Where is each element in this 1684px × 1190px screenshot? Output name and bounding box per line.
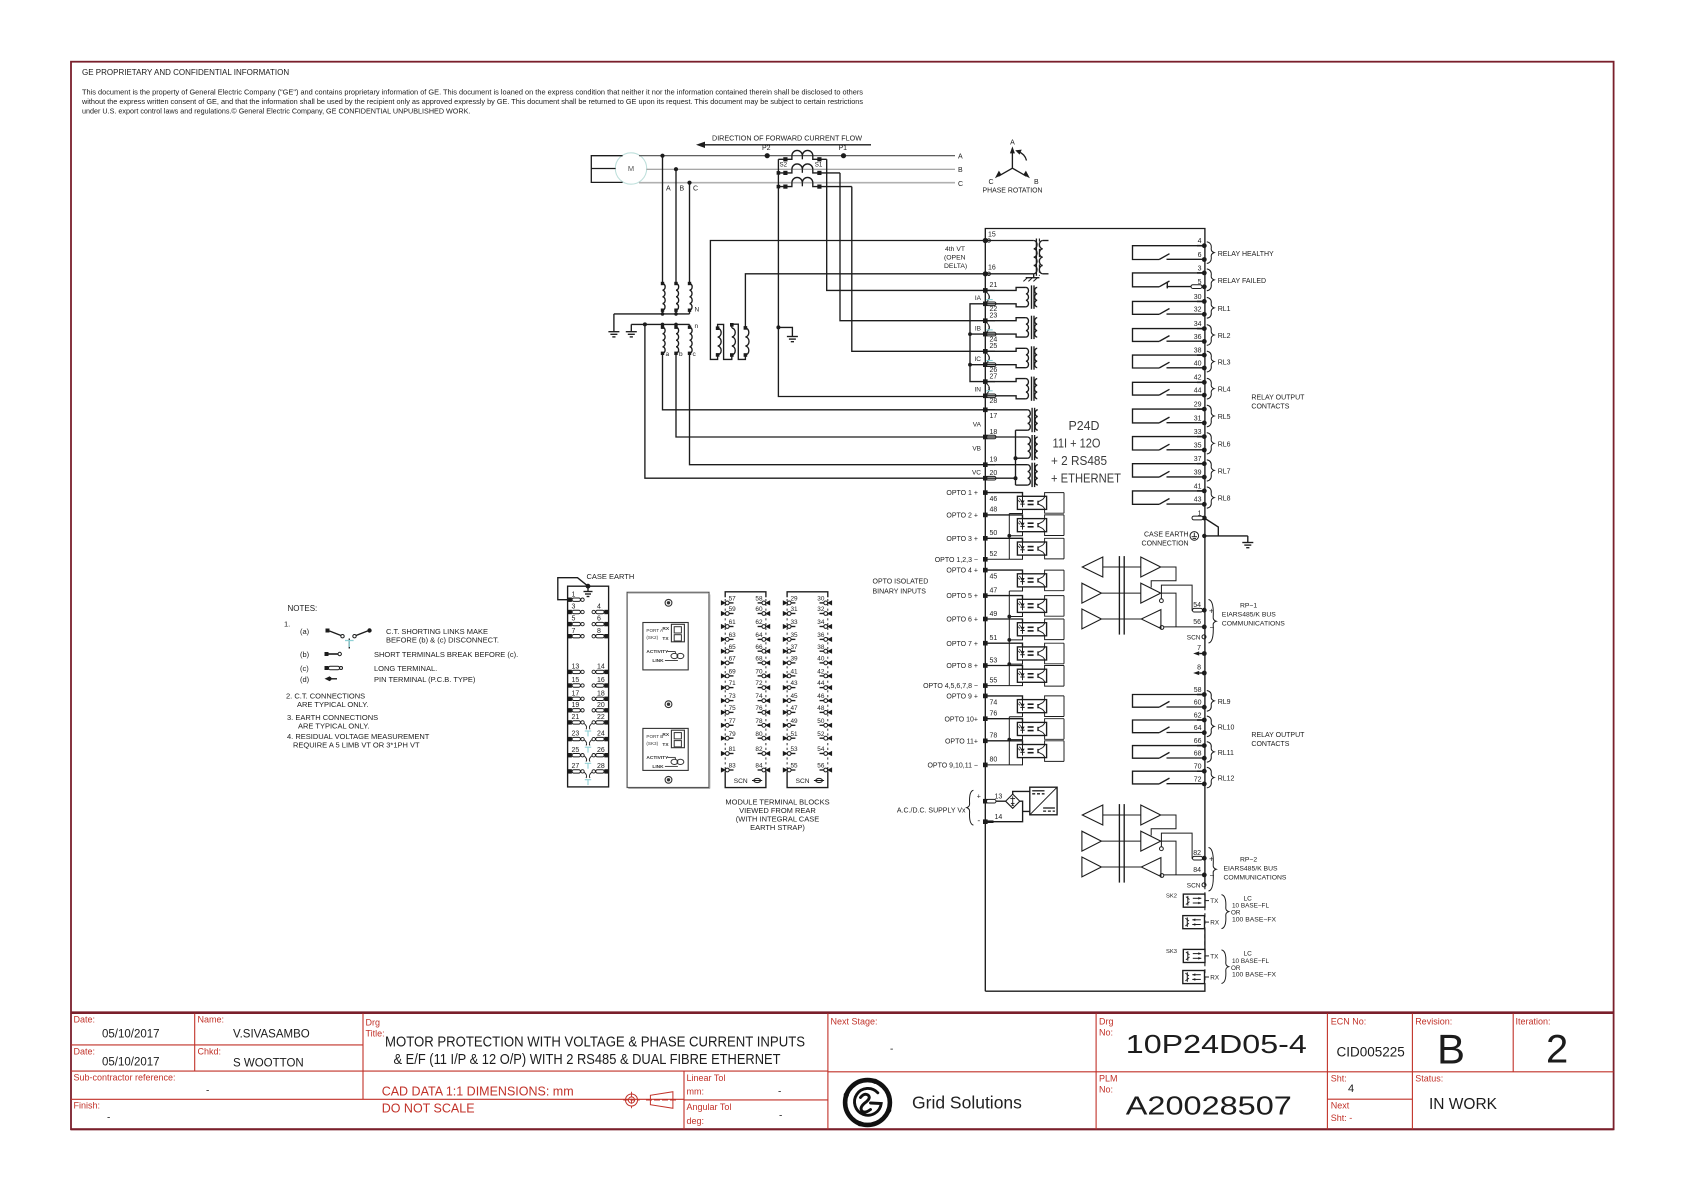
svg-text:58: 58: [1194, 687, 1202, 694]
svg-text:43: 43: [1194, 497, 1202, 504]
svg-text:7: 7: [572, 628, 576, 635]
svg-text:(d): (d): [300, 675, 310, 684]
ground case earth: [1247, 536, 1249, 543]
VT secondary star wire: [631, 324, 689, 327]
relay output contact RL3: [1133, 355, 1205, 368]
opto isolator 5: [985, 596, 1022, 600]
case earth terminal 3: [568, 610, 572, 614]
svg-text:IB: IB: [975, 325, 981, 332]
svg-text:68: 68: [1194, 751, 1202, 758]
module terminal block 57-84 terminal 58: [765, 600, 770, 605]
opto input terminal 78: [983, 739, 988, 744]
opto isolator 10: [985, 719, 1022, 723]
svg-text:23: 23: [572, 731, 580, 738]
svg-text:64: 64: [1194, 725, 1202, 732]
title block outline: [71, 1011, 1614, 1014]
svg-text:RL2: RL2: [1218, 333, 1231, 340]
RP-2 row1 wire: [1151, 815, 1176, 836]
terminal SCN RP-2: [1202, 883, 1206, 887]
svg-text:ACTIVITY: ACTIVITY: [646, 649, 669, 655]
svg-text:48: 48: [990, 507, 998, 514]
svg-text:15: 15: [988, 231, 996, 238]
svg-text:13: 13: [995, 794, 1003, 801]
note 1d icon: [325, 676, 331, 681]
module terminal block 57-84 terminal 72: [765, 685, 770, 690]
svg-text:4: 4: [1198, 238, 1202, 245]
svg-text:IC: IC: [975, 356, 982, 363]
case earth terminal 13: [568, 670, 572, 674]
RP-2 minus wire: [1164, 874, 1204, 876]
svg-text:44: 44: [1194, 388, 1202, 395]
svg-text:b: b: [679, 351, 683, 358]
svg-text:51: 51: [990, 635, 998, 642]
terminal RL6 bottom: [1202, 448, 1207, 453]
svg-text:P1: P1: [839, 145, 848, 152]
terminal 25: [983, 349, 988, 354]
terminal 54: [1202, 608, 1207, 613]
case earth terminal 5: [568, 622, 572, 626]
svg-text:8: 8: [1197, 665, 1201, 672]
svg-text:N: N: [695, 307, 700, 314]
open delta VT winding 3: [745, 328, 749, 355]
module terminal block 57-84 terminal 78: [765, 723, 770, 728]
svg-text:60: 60: [755, 606, 763, 613]
svg-text:39: 39: [791, 656, 799, 663]
CT phase C S2 terminal: [783, 185, 787, 189]
svg-text:4th VT: 4th VT: [945, 246, 965, 253]
terminal RL5 bottom: [1202, 421, 1207, 426]
svg-text:41: 41: [791, 669, 799, 676]
GE logo: [845, 1080, 890, 1125]
terminal 21: [983, 288, 988, 293]
svg-text:8: 8: [597, 628, 601, 635]
terminal 19: [983, 462, 988, 467]
RP-1 receiver buffer row1: [1082, 557, 1103, 577]
case earth earth symbol: [586, 584, 591, 589]
svg-text:23: 23: [990, 313, 998, 320]
relay output contact RL8: [1133, 491, 1205, 504]
module terminal block 57-84 terminal 84: [765, 767, 770, 772]
opto isolator 8: [985, 666, 1022, 670]
svg-text:PLM: PLM: [1099, 1074, 1118, 1084]
svg-text:57: 57: [729, 596, 737, 603]
terminal RELAY HEALTHY bottom: [1202, 257, 1207, 262]
svg-text:14: 14: [995, 814, 1003, 821]
RP-1 minus wire: [1164, 626, 1204, 628]
wire a to terminal 17: [663, 353, 984, 410]
svg-text:BEFORE (b) & (c) DISCONNECT.: BEFORE (b) & (c) DISCONNECT.: [386, 636, 499, 645]
opto common terminal 80: [983, 763, 988, 768]
svg-text:No:: No:: [1099, 1027, 1113, 1037]
SK2 TX port: [1183, 894, 1205, 907]
svg-text:TX: TX: [662, 742, 669, 748]
svg-text:52: 52: [817, 731, 825, 738]
terminal RL8 bottom: [1202, 502, 1207, 507]
svg-text:ECN No:: ECN No:: [1331, 1016, 1367, 1026]
case earth terminal 20: [604, 708, 608, 712]
RP-1 driver buffer row2: [1082, 583, 1102, 603]
svg-text:IA: IA: [975, 295, 982, 302]
svg-text:Sht:: Sht:: [1331, 1074, 1347, 1084]
svg-text:OPTO 5 +: OPTO 5 +: [946, 593, 978, 600]
svg-text:TX: TX: [1210, 898, 1219, 905]
svg-text:CONNECTION: CONNECTION: [1142, 540, 1189, 547]
transformer 4th VT input: [1034, 241, 1037, 274]
open delta VT winding 1: [718, 328, 722, 355]
case earth circle symbol: [1190, 532, 1199, 541]
svg-text:(b): (b): [300, 650, 310, 659]
opto input terminal 51: [983, 641, 988, 646]
svg-text:32: 32: [1194, 307, 1202, 314]
svg-text:RP−2: RP−2: [1240, 857, 1257, 864]
svg-text:OPTO 4 +: OPTO 4 +: [946, 568, 978, 575]
terminal RELAY FAILED bottom: [1202, 284, 1207, 289]
ethernet PORT A connector: [671, 624, 684, 642]
svg-text:Chkd:: Chkd:: [198, 1046, 222, 1056]
terminal RL8 top: [1202, 489, 1207, 494]
svg-text:18: 18: [597, 690, 605, 697]
svg-text:61: 61: [729, 619, 737, 626]
case earth strap: [558, 578, 588, 600]
svg-text:17: 17: [572, 690, 580, 697]
svg-text:31: 31: [1194, 415, 1202, 422]
motor M: [615, 153, 646, 184]
wire CT common to terminal 28: [778, 159, 983, 396]
svg-text:mm:: mm:: [687, 1087, 705, 1097]
SK2 RX port: [1183, 916, 1205, 929]
svg-text:33: 33: [1194, 429, 1202, 436]
svg-text:RL5: RL5: [1218, 414, 1231, 421]
terminal 82: [1202, 856, 1207, 861]
svg-text:63: 63: [729, 632, 737, 639]
svg-text:without the express written co: without the express written consent of G…: [81, 97, 863, 106]
case earth terminal 6: [604, 622, 608, 626]
svg-text:a: a: [666, 351, 670, 358]
svg-text:(OPEN: (OPEN: [944, 255, 966, 262]
svg-text:45: 45: [990, 574, 998, 581]
svg-text:3: 3: [572, 604, 576, 611]
svg-text:Date:: Date:: [74, 1015, 96, 1025]
opto isolator 9: [985, 696, 1022, 700]
module terminal block 29-56 outline: [787, 592, 828, 598]
svg-text:56: 56: [1193, 619, 1201, 626]
svg-text:70: 70: [1194, 764, 1202, 771]
svg-text:-: -: [890, 1044, 893, 1055]
svg-text:82: 82: [1193, 850, 1201, 857]
note 1c icon: [325, 666, 329, 670]
svg-text:4: 4: [597, 604, 601, 611]
svg-text:+: +: [977, 793, 981, 800]
case earth terminal 23: [568, 737, 572, 741]
svg-text:45: 45: [791, 693, 799, 700]
case earth terminal 19: [568, 708, 572, 712]
svg-text:16: 16: [597, 677, 605, 684]
terminal RL10 bottom: [1202, 730, 1207, 735]
SK2 brace: [1222, 895, 1229, 929]
svg-text:C: C: [693, 186, 698, 193]
svg-text:10 BASE−FL: 10 BASE−FL: [1232, 903, 1269, 910]
svg-text:19: 19: [572, 702, 580, 709]
svg-text:A.C./D.C. SUPPLY Vx: A.C./D.C. SUPPLY Vx: [897, 807, 966, 814]
svg-text:32: 32: [817, 606, 825, 613]
wire CT return bus 22-24-26-27: [970, 304, 985, 382]
terminal RL4 bottom: [1202, 393, 1207, 398]
svg-text:OPTO 6 +: OPTO 6 +: [946, 617, 978, 624]
svg-text:76: 76: [990, 711, 998, 718]
note 1b icon: [325, 652, 329, 656]
CT phase A secondary leads: [778, 156, 826, 160]
svg-text:ARE TYPICAL ONLY.: ARE TYPICAL ONLY.: [298, 722, 369, 731]
phase bus A: [639, 155, 955, 157]
svg-text:19: 19: [990, 457, 998, 464]
svg-text:18: 18: [990, 429, 998, 436]
wire open delta VT to terminal 16: [745, 274, 983, 328]
wire n to terminal 20: [645, 324, 983, 478]
svg-text:OPTO 7 +: OPTO 7 +: [946, 641, 978, 648]
svg-text:33: 33: [791, 619, 799, 626]
module terminal block 57-84 terminal 79: [721, 736, 726, 741]
wire case earth: [1204, 535, 1248, 537]
opto input terminal 53: [983, 663, 988, 668]
svg-text:P24D: P24D: [1069, 419, 1100, 433]
svg-text:EARTH STRAP): EARTH STRAP): [750, 823, 805, 832]
transformer VC input: [985, 464, 1027, 466]
svg-text:Linear Tol: Linear Tol: [687, 1073, 726, 1083]
relay output contact RL10: [1133, 720, 1205, 733]
case earth terminal 24: [604, 737, 608, 741]
VT primary winding A: [663, 284, 666, 311]
module terminal block 57-84 terminal 61: [721, 624, 726, 629]
module terminal block 57-84 terminal 73: [721, 698, 726, 703]
module terminal block 57-84 terminal 76: [765, 710, 770, 715]
svg-text:(SK2): (SK2): [646, 635, 658, 640]
svg-text:PORT B: PORT B: [646, 734, 663, 739]
VT secondary winding a: [663, 327, 666, 353]
svg-text:B: B: [680, 186, 685, 193]
svg-text:11I + 12O: 11I + 12O: [1053, 437, 1101, 451]
svg-text:& E/F (11 I/P & 12 O/P) WITH 2: & E/F (11 I/P & 12 O/P) WITH 2 RS485 & D…: [394, 1052, 781, 1068]
svg-text:ARE TYPICAL ONLY.: ARE TYPICAL ONLY.: [297, 700, 368, 709]
terminal 15: [983, 238, 988, 243]
phase bus B: [647, 168, 956, 170]
svg-text:21: 21: [572, 714, 580, 721]
svg-text:RP−1: RP−1: [1240, 603, 1257, 610]
svg-text:RELAY OUTPUT: RELAY OUTPUT: [1251, 732, 1305, 739]
svg-text:TX: TX: [1210, 954, 1219, 961]
VT primary winding C: [690, 284, 693, 311]
direction arrow: [703, 144, 871, 146]
RP-1 isolation barrier: [1118, 556, 1120, 635]
module terminal block 29-56 terminal 36: [827, 637, 832, 642]
svg-text:28: 28: [597, 763, 605, 770]
svg-text:5: 5: [572, 616, 576, 623]
svg-text:41: 41: [1194, 483, 1202, 490]
open delta VT link 1-2: [718, 324, 732, 359]
svg-text:34: 34: [1194, 321, 1202, 328]
svg-text:RL12: RL12: [1218, 776, 1235, 783]
svg-text:COMMUNICATIONS: COMMUNICATIONS: [1224, 875, 1287, 882]
svg-text:80: 80: [990, 757, 998, 764]
svg-text:42: 42: [817, 669, 825, 676]
ethernet PORT B box: [643, 728, 688, 770]
module terminal block 29-56 terminal 53: [783, 751, 788, 756]
svg-text:43: 43: [791, 680, 799, 687]
relay case outline P24D: [985, 229, 1205, 992]
module terminal block 57-84 terminal 74: [765, 698, 770, 703]
svg-text:RL9: RL9: [1218, 699, 1231, 706]
note 1a icon: [326, 629, 330, 633]
svg-text:COMMUNICATIONS: COMMUNICATIONS: [1222, 621, 1285, 628]
module terminal block 57-84 terminal 70: [765, 673, 770, 678]
opto input terminal 50: [983, 536, 988, 541]
module terminal block 57-84 terminal 82: [765, 751, 770, 756]
svg-text:30: 30: [1194, 294, 1202, 301]
module terminal block 57-84 terminal 65: [721, 649, 726, 654]
module terminal block 29-56 terminal 38: [827, 649, 832, 654]
4th VT screen earth: [1033, 274, 1035, 278]
svg-text:82: 82: [755, 746, 763, 753]
svg-text:OPTO 10+: OPTO 10+: [944, 716, 978, 723]
ethernet PORT B connector: [671, 730, 684, 748]
svg-text:+ 2 RS485: + 2 RS485: [1051, 454, 1107, 468]
case earth terminal 8: [604, 634, 608, 638]
case earth terminal 15: [568, 683, 572, 687]
svg-text:28: 28: [990, 398, 998, 405]
ground VT secondary: [626, 331, 637, 333]
svg-text:20: 20: [990, 470, 998, 477]
svg-text:Finish:: Finish:: [74, 1101, 101, 1111]
svg-text:RL3: RL3: [1218, 360, 1231, 367]
svg-text:DO NOT SCALE: DO NOT SCALE: [382, 1102, 475, 1116]
terminal RL7 top: [1202, 461, 1207, 466]
svg-text:RL4: RL4: [1218, 387, 1231, 394]
panel screw: [665, 599, 672, 606]
supply brace: [967, 790, 974, 825]
svg-text:25: 25: [572, 747, 580, 754]
wire b to terminal 18: [676, 353, 983, 437]
svg-text:DELTA): DELTA): [944, 263, 967, 270]
relay output contact RL1: [1133, 301, 1205, 314]
wire opto common 55: [985, 685, 1009, 687]
ground CT common: [787, 336, 798, 338]
svg-text:55: 55: [791, 763, 799, 770]
svg-text:30: 30: [817, 596, 825, 603]
svg-text:(SK3): (SK3): [646, 741, 658, 746]
svg-text:50: 50: [990, 530, 998, 537]
case earth terminal 26: [604, 753, 608, 757]
svg-text:Next Stage:: Next Stage:: [831, 1016, 878, 1026]
svg-text:40: 40: [817, 656, 825, 663]
svg-text:68: 68: [755, 656, 763, 663]
module terminal block 57-84 terminal 67: [721, 660, 726, 665]
svg-text:24: 24: [597, 731, 605, 738]
svg-text:RELAY OUTPUT: RELAY OUTPUT: [1251, 395, 1305, 402]
wire opto common 80: [985, 764, 1009, 766]
opto isolator 3: [985, 538, 1022, 542]
module terminal block 29-56 terminal 43: [783, 685, 788, 690]
svg-text:RELAY FAILED: RELAY FAILED: [1218, 278, 1266, 285]
svg-text:69: 69: [729, 669, 737, 676]
svg-text:6: 6: [597, 616, 601, 623]
svg-text:-: -: [778, 1087, 781, 1098]
terminal RELAY HEALTHY top: [1202, 243, 1207, 248]
svg-text:OPTO 1,2,3 −: OPTO 1,2,3 −: [935, 557, 978, 564]
svg-text:75: 75: [729, 705, 737, 712]
svg-text:RL10: RL10: [1218, 724, 1235, 731]
opto isolator 6: [985, 619, 1022, 623]
opto isolator 2: [985, 515, 1022, 519]
svg-text:LC: LC: [1244, 951, 1253, 958]
svg-text:1.: 1.: [284, 620, 290, 629]
module terminal block 57-84 terminal 69: [721, 673, 726, 678]
svg-text:84: 84: [1193, 867, 1201, 874]
module terminal block 57-84 outline: [725, 592, 766, 598]
RP-2 driver buffer row2: [1082, 831, 1102, 851]
svg-text:OPTO ISOLATED: OPTO ISOLATED: [873, 579, 929, 586]
svg-text:27: 27: [990, 373, 998, 380]
svg-text:P2: P2: [762, 145, 771, 152]
svg-text:71: 71: [729, 680, 737, 687]
opto input terminal 74: [983, 694, 988, 699]
svg-text:73: 73: [729, 693, 737, 700]
module terminal block 57-84 terminal 60: [765, 611, 770, 616]
module terminal block 57-84 terminal 68: [765, 660, 770, 665]
case earth block outline: [568, 586, 609, 787]
opto input terminal 48: [983, 513, 988, 518]
module terminal block 29-56 terminal 56: [827, 767, 832, 772]
svg-text:SCN: SCN: [1187, 635, 1201, 642]
module terminal block 29-56 terminal 33: [783, 624, 788, 629]
svg-text:A: A: [1010, 140, 1015, 147]
svg-text:34: 34: [817, 619, 825, 626]
case earth terminal 7: [568, 634, 572, 638]
RP-2 row2 wire: [1161, 841, 1176, 875]
svg-text:LONG TERMINAL.: LONG TERMINAL.: [374, 664, 437, 673]
RP-2 isolation barrier: [1118, 804, 1120, 883]
svg-text:CAD DATA 1:1 DIMENSIONS: mm: CAD DATA 1:1 DIMENSIONS: mm: [382, 1084, 574, 1098]
svg-text:40: 40: [1194, 360, 1202, 367]
relay output contact RL11: [1133, 746, 1205, 759]
CT shorting link 27-28: [987, 384, 990, 391]
phase B tap wire: [675, 169, 677, 283]
svg-text:SK3: SK3: [1166, 949, 1177, 955]
module terminal block 29-56 terminal 37: [783, 649, 788, 654]
module terminal block 57-84 terminal 63: [721, 637, 726, 642]
transformer IN input: [985, 379, 1026, 382]
svg-text:54: 54: [1193, 602, 1201, 609]
transformer VB input: [985, 436, 1027, 438]
svg-text:72: 72: [1194, 776, 1202, 783]
terminal RL12 top: [1202, 769, 1207, 774]
svg-text:Name:: Name:: [198, 1015, 225, 1025]
svg-text:S1: S1: [815, 161, 823, 168]
svg-text:7: 7: [1197, 645, 1201, 652]
terminal 16: [983, 271, 988, 276]
case earth terminal 1: [568, 598, 572, 602]
case earth terminal 28: [604, 769, 608, 773]
svg-text:TX: TX: [662, 636, 669, 642]
CT phase A S2 terminal: [783, 157, 787, 161]
svg-text:VB: VB: [972, 446, 981, 453]
module terminal block 29-56 terminal 40: [827, 660, 832, 665]
case earth shorting links: [584, 723, 587, 729]
transformer IA input: [985, 287, 1026, 290]
svg-text:51: 51: [791, 731, 799, 738]
CT primary marker P2: [765, 153, 770, 158]
case earth terminal 4: [604, 610, 608, 614]
CT phase A S1 terminal: [817, 157, 821, 161]
svg-text:OPTO 11+: OPTO 11+: [945, 738, 978, 745]
